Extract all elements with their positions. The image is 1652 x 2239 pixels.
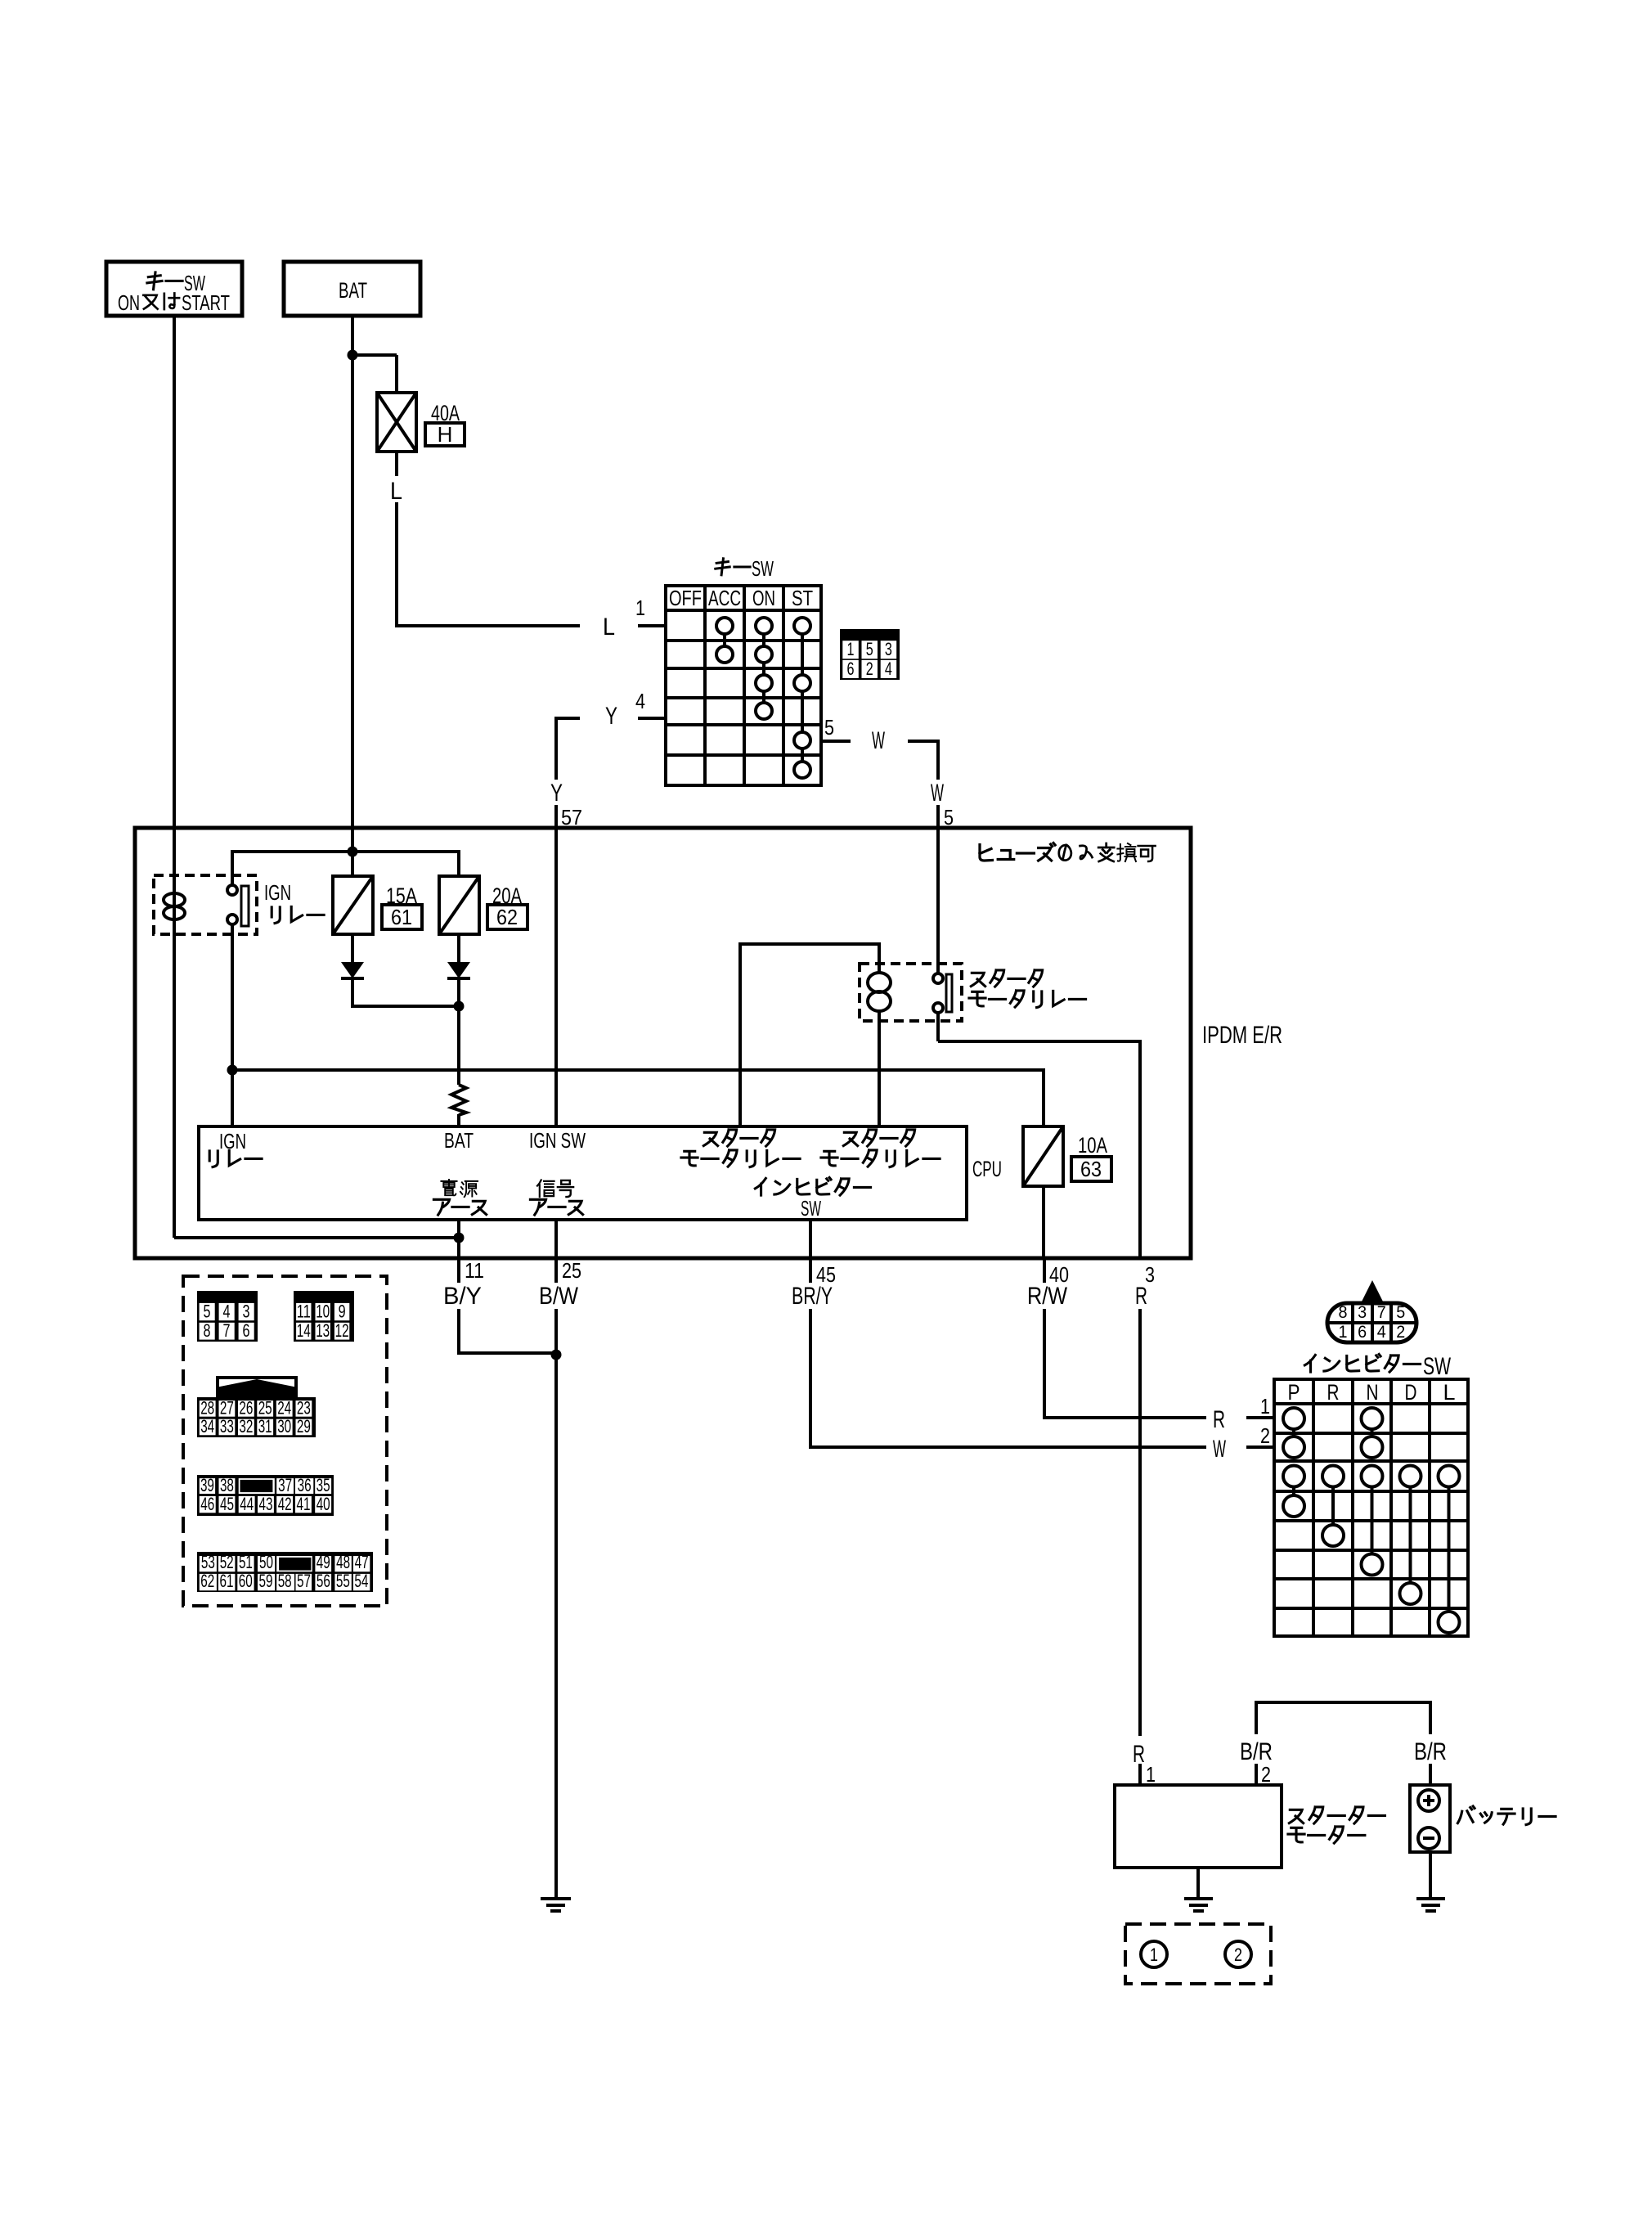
box: key switch power source (キーSW ON又はSTART) <box>106 262 242 316</box>
svg-text:35: 35 <box>316 1475 330 1495</box>
terminal label アース (1) <box>433 1199 449 1215</box>
inhibitor switch table grid <box>1312 1379 1315 1636</box>
svg-text:36: 36 <box>298 1475 312 1495</box>
box label H <box>425 423 465 446</box>
box label 62 <box>487 905 527 929</box>
wire: L horizontal to key switch <box>395 624 398 627</box>
relay starter motor: dashed outline <box>860 964 962 1021</box>
svg-text:W: W <box>872 727 885 754</box>
svg-text:61: 61 <box>391 905 412 929</box>
note ヒューズのみ交換可 <box>980 845 993 861</box>
svg-text:28: 28 <box>200 1398 214 1418</box>
wire: bus down to IGN relay contact <box>231 850 234 885</box>
svg-text:56: 56 <box>316 1571 330 1591</box>
svg-text:3: 3 <box>243 1302 250 1322</box>
key switch contact circles <box>716 618 733 634</box>
fuse 63 10A (box with /) <box>1023 1126 1063 1186</box>
svg-text:1: 1 <box>1339 1323 1348 1342</box>
svg-text:51: 51 <box>239 1552 253 1572</box>
wire: Y horizontal corner <box>556 717 580 720</box>
terminal label アース (2) <box>530 1199 545 1215</box>
wire: relay coil to CPU (starter relay terminal 2) <box>878 1010 881 1126</box>
svg-text:IPDM E/R: IPDM E/R <box>1202 1022 1282 1049</box>
wire: R/W vertical lower <box>1043 1309 1046 1419</box>
wire: 15A fuse to diode D1 <box>351 934 354 964</box>
contact link line N column (1-2) <box>1371 1418 1374 1447</box>
svg-text:4: 4 <box>1377 1323 1386 1342</box>
svg-text:L: L <box>390 478 402 505</box>
svg-text:55: 55 <box>336 1571 350 1591</box>
junction: BAT branch node <box>348 350 358 361</box>
wire: starter relay pin 40 upper <box>1043 1258 1046 1283</box>
wire: power ground pin 11 upper <box>457 1220 460 1283</box>
wire: Y vertical upper <box>554 717 558 780</box>
svg-text:3: 3 <box>1358 1303 1367 1322</box>
svg-text:1: 1 <box>1260 1394 1270 1418</box>
wire: B/R into battery <box>1429 1764 1432 1785</box>
wire: diode D1 to node <box>351 978 354 1008</box>
inhibitor switch contact circles <box>1283 1408 1304 1429</box>
wire: B/Y lower <box>457 1309 460 1355</box>
terminal label スタータ (2) <box>843 1132 857 1145</box>
svg-text:62: 62 <box>200 1571 214 1591</box>
svg-text:5: 5 <box>866 639 873 659</box>
wire: inhibitor SW pin 45 upper <box>809 1220 812 1283</box>
label スターター モーター <box>1289 1810 1303 1823</box>
svg-text:7: 7 <box>1377 1303 1386 1322</box>
svg-text:B/W: B/W <box>539 1283 579 1310</box>
svg-text:N: N <box>1367 1380 1379 1405</box>
wire: IGN relay output bus to 10A fuse <box>232 1068 1044 1072</box>
wire: battery to ground <box>1429 1852 1432 1899</box>
wire: relay contact output to pin 3 <box>938 1040 1140 1043</box>
svg-text:43: 43 <box>259 1494 273 1514</box>
relay IGN: coil loops <box>164 893 185 906</box>
relay IGN: dashed outline <box>154 875 257 934</box>
svg-text:44: 44 <box>240 1494 254 1514</box>
pin 5 tick of key switch <box>821 740 851 743</box>
terminal label モータリレー (2) <box>821 1151 837 1166</box>
svg-text:R/W: R/W <box>1027 1283 1068 1310</box>
svg-text:6: 6 <box>243 1320 250 1341</box>
wire: IGN relay contact to CPU box <box>231 924 234 1126</box>
svg-text:7: 7 <box>223 1320 231 1341</box>
svg-text:SW: SW <box>801 1196 821 1221</box>
svg-text:4: 4 <box>223 1302 231 1322</box>
wire: B/R down to battery <box>1429 1702 1432 1734</box>
wire: resistor to CPU box <box>457 1114 460 1126</box>
svg-text:Y: Y <box>550 780 563 807</box>
svg-text:34: 34 <box>200 1416 214 1436</box>
wire: branch to fusible link H <box>352 353 397 357</box>
svg-text:39: 39 <box>200 1475 214 1495</box>
svg-text:42: 42 <box>278 1494 292 1514</box>
connector view E frame <box>197 1552 373 1592</box>
svg-text:14: 14 <box>297 1320 311 1341</box>
box: BAT power source <box>284 262 420 316</box>
junction: B/Y-B/W tie <box>551 1350 562 1360</box>
connector views: dashed box <box>183 1276 387 1606</box>
svg-text:2: 2 <box>1261 1762 1271 1787</box>
pin 1 tick of key switch <box>638 624 666 627</box>
module box: IPDM E/R <box>135 828 1191 1258</box>
svg-text:8: 8 <box>1339 1303 1348 1322</box>
wire: fuse H down (lower) <box>395 502 398 626</box>
diode D2 <box>447 962 470 978</box>
svg-text:IGN: IGN <box>264 880 291 905</box>
contact link line D column (3-7) <box>1409 1477 1412 1594</box>
svg-text:R: R <box>1135 1283 1147 1310</box>
svg-text:L: L <box>1443 1380 1456 1405</box>
svg-text:41: 41 <box>297 1494 311 1514</box>
label スタータ モータリレー (beside relay) <box>971 973 985 986</box>
svg-text:W: W <box>931 780 944 807</box>
wire: BR/Y vertical lower <box>809 1309 812 1449</box>
component: inhibitor switch table <box>1274 1379 1468 1636</box>
svg-text:24: 24 <box>277 1398 291 1418</box>
svg-text:9: 9 <box>339 1302 346 1322</box>
wire: bus to relay coil <box>878 942 881 973</box>
wire: B/W lower to ground <box>554 1309 558 1899</box>
relay starter motor: contact circles <box>933 973 943 983</box>
svg-text:54: 54 <box>354 1571 368 1591</box>
svg-text:2: 2 <box>1234 1945 1242 1965</box>
svg-text:2: 2 <box>866 659 873 679</box>
svg-text:47: 47 <box>355 1552 369 1572</box>
wire: key switch SW down to ground junction <box>173 316 176 1238</box>
svg-text:OFF: OFF <box>669 586 702 610</box>
svg-text:50: 50 <box>259 1552 273 1572</box>
svg-text:6: 6 <box>847 659 855 679</box>
junction: ground tie node <box>454 1233 465 1243</box>
connector view D frame <box>197 1475 334 1516</box>
wire: internal feed bus <box>232 850 459 853</box>
svg-text:B/Y: B/Y <box>443 1283 482 1310</box>
contact link line P column (3-4) <box>1292 1477 1295 1507</box>
battery minus terminal <box>1418 1828 1439 1849</box>
wire: bus down to CPU (starter relay terminal 1) <box>738 942 742 1126</box>
component box: starter motor <box>1115 1785 1282 1868</box>
svg-text:ST: ST <box>792 586 813 610</box>
svg-text:4: 4 <box>885 659 892 679</box>
wire: BR/Y horizontal to inhibitor SW <box>810 1445 1206 1449</box>
svg-text:L: L <box>603 614 615 641</box>
svg-text:8: 8 <box>204 1320 211 1341</box>
connector view (key switch) frame <box>840 629 900 680</box>
relay starter motor: contact bar <box>946 974 952 1012</box>
svg-text:26: 26 <box>239 1398 253 1418</box>
svg-text:37: 37 <box>278 1475 292 1495</box>
relay starter motor: coil loops <box>868 973 891 992</box>
ground symbol (signal/power ground) <box>541 1897 571 1900</box>
wire: diode D2 to node <box>457 978 460 1006</box>
svg-text:29: 29 <box>297 1416 311 1436</box>
contact link line ACC column <box>723 626 726 654</box>
wire: Y vertical lower into IPDM <box>554 805 558 1126</box>
svg-text:D: D <box>1405 1380 1417 1405</box>
wire: diode output bus <box>352 1005 459 1008</box>
svg-text:11: 11 <box>465 1258 484 1283</box>
title インヒビターSW <box>1304 1355 1315 1372</box>
contact link line L column (3-8) <box>1448 1477 1451 1623</box>
wire: R wire into starter motor <box>1138 1764 1142 1785</box>
svg-text:3: 3 <box>885 639 892 659</box>
svg-text:W: W <box>1213 1436 1226 1463</box>
key switch table grid <box>703 586 707 785</box>
svg-text:4: 4 <box>635 689 645 713</box>
svg-text:IGN SW: IGN SW <box>529 1128 586 1153</box>
svg-text:BR/Y: BR/Y <box>792 1283 833 1310</box>
contact link line ST column <box>801 626 804 770</box>
svg-text:P: P <box>1288 1380 1300 1405</box>
connector view C frame <box>197 1397 316 1437</box>
circled pin 2 <box>1225 1941 1251 1967</box>
wire: B/R horizontal <box>1255 1701 1432 1704</box>
svg-text:38: 38 <box>220 1475 234 1495</box>
wire: BAT down to 15A fuse <box>351 316 354 876</box>
svg-text:45: 45 <box>220 1494 234 1514</box>
wire: W vertical into IPDM to relay contact <box>936 805 940 974</box>
wire: W horizontal <box>908 740 938 743</box>
title キーSW (above table) <box>716 559 729 575</box>
svg-text:13: 13 <box>316 1320 330 1341</box>
svg-text:5: 5 <box>1396 1303 1405 1322</box>
svg-text:SW: SW <box>1423 1353 1451 1380</box>
component box: battery <box>1410 1785 1450 1852</box>
svg-text:ACC: ACC <box>708 586 741 610</box>
connector view A frame <box>197 1291 258 1342</box>
svg-text:ON: ON <box>752 586 775 610</box>
svg-text:57: 57 <box>297 1571 311 1591</box>
svg-text:61: 61 <box>220 1571 234 1591</box>
svg-text:H: H <box>438 422 453 447</box>
svg-text:12: 12 <box>335 1320 349 1341</box>
svg-text:40: 40 <box>316 1494 330 1514</box>
wire: bus down to 10A fuse <box>1042 1068 1045 1126</box>
module box: CPU unit <box>199 1126 967 1220</box>
svg-text:6: 6 <box>1358 1323 1367 1342</box>
connector view (inhibitor): orientation triangle <box>1361 1280 1384 1303</box>
contact link line ON column <box>762 626 765 711</box>
svg-text:1: 1 <box>1146 1762 1156 1787</box>
connector view (inhibitor) frame <box>1327 1303 1416 1342</box>
svg-text:10: 10 <box>316 1302 330 1322</box>
svg-text:5: 5 <box>204 1302 211 1322</box>
wire: signal ground pin 25 upper <box>554 1220 558 1283</box>
wire: node down to resistor <box>457 1005 460 1085</box>
svg-text:R: R <box>1213 1406 1225 1433</box>
svg-text:60: 60 <box>239 1571 253 1591</box>
wire: R wire down to starter motor <box>1138 1309 1142 1736</box>
svg-text:32: 32 <box>239 1416 253 1436</box>
connector view C hood <box>218 1378 296 1397</box>
svg-text:11: 11 <box>297 1302 311 1322</box>
box label 61 <box>382 905 422 929</box>
wire: starter motor case to ground <box>1196 1868 1200 1899</box>
svg-text:IGN: IGN <box>219 1129 246 1153</box>
wire: R/W horizontal to inhibitor SW <box>1044 1416 1206 1419</box>
wire: B/R from starter motor pin 2 up <box>1255 1764 1258 1785</box>
contact link line P column (1-2) <box>1292 1418 1295 1447</box>
diode D1 <box>341 962 364 978</box>
label キーSW (in source box) <box>147 272 162 290</box>
svg-text:25: 25 <box>562 1258 581 1283</box>
component: key switch table (キーSW) <box>666 586 821 785</box>
svg-text:30: 30 <box>277 1416 291 1436</box>
wire: fuse H down (upper) <box>395 452 398 476</box>
svg-text:46: 46 <box>200 1494 214 1514</box>
wire: relay contact output down <box>936 1012 940 1041</box>
battery plus terminal <box>1418 1790 1439 1811</box>
svg-text:1: 1 <box>635 596 645 620</box>
fuse 62 20A (box with /) <box>439 876 479 934</box>
junction: BAT at feed bus <box>348 847 358 857</box>
terminal label 電源 <box>441 1180 456 1195</box>
wire: W tick into inhibitor pin 2 <box>1246 1445 1274 1449</box>
svg-text:START: START <box>182 290 230 315</box>
svg-text:BAT: BAT <box>339 278 367 303</box>
label バッテリー <box>1457 1806 1475 1823</box>
connector detail: dashed box <box>1125 1924 1271 1984</box>
svg-text:52: 52 <box>220 1552 234 1572</box>
wire: 20A fuse to diode D2 <box>457 934 460 964</box>
svg-text:B/R: B/R <box>1240 1738 1273 1765</box>
svg-text:CPU: CPU <box>972 1157 1002 1181</box>
junction: diode output node <box>454 1001 465 1012</box>
terminal label インヒビター <box>755 1178 765 1195</box>
wire: B/R upper left <box>1255 1702 1258 1734</box>
fusible link H 40A (box with X) <box>377 393 416 452</box>
svg-text:SW: SW <box>752 556 774 581</box>
wire: bus down to 20A fuse <box>457 850 460 876</box>
svg-text:10A: 10A <box>1078 1133 1107 1158</box>
svg-text:31: 31 <box>258 1416 272 1436</box>
svg-text:ON: ON <box>118 290 140 315</box>
box label 63 <box>1071 1157 1111 1181</box>
svg-text:23: 23 <box>297 1398 311 1418</box>
svg-text:2: 2 <box>1396 1323 1405 1342</box>
svg-text:33: 33 <box>220 1416 234 1436</box>
svg-text:5: 5 <box>824 715 834 740</box>
svg-text:2: 2 <box>1260 1423 1270 1448</box>
terminal label 信号 <box>537 1180 554 1197</box>
svg-text:Y: Y <box>605 703 617 730</box>
relay IGN: contact bar <box>241 886 249 926</box>
svg-text:48: 48 <box>336 1552 350 1572</box>
svg-text:59: 59 <box>259 1571 273 1591</box>
svg-text:1: 1 <box>1150 1945 1158 1965</box>
svg-text:1: 1 <box>847 639 855 659</box>
terminal label モータリレー (1) <box>681 1151 698 1166</box>
svg-text:25: 25 <box>258 1398 272 1418</box>
relay IGN: contact circles <box>227 885 237 895</box>
wire: W vertical upper <box>935 740 938 743</box>
svg-text:B/R: B/R <box>1414 1738 1447 1765</box>
wire: 10A fuse to pin 40 <box>1042 1186 1045 1258</box>
svg-text:63: 63 <box>1080 1157 1102 1181</box>
contact link line N column (3-6) <box>1371 1477 1374 1565</box>
pin 4 tick of key switch <box>638 717 666 720</box>
wire: R tick into inhibitor pin 1 <box>1246 1416 1274 1419</box>
svg-text:58: 58 <box>278 1571 292 1591</box>
circled pin 1 <box>1141 1941 1167 1967</box>
connector view B frame <box>294 1291 354 1342</box>
wire: key switch SW tie <box>174 1236 459 1239</box>
svg-text:27: 27 <box>220 1398 234 1418</box>
contact link line R column (3-5) <box>1331 1477 1335 1536</box>
svg-text:R: R <box>1327 1380 1340 1405</box>
ground symbol (starter motor) <box>1184 1897 1213 1900</box>
fuse 61 15A (box with /) <box>333 876 373 934</box>
svg-text:62: 62 <box>496 905 518 929</box>
svg-text:49: 49 <box>316 1552 330 1572</box>
svg-text:BAT: BAT <box>444 1128 474 1153</box>
junction: IGN relay output node <box>227 1065 238 1076</box>
ground symbol (battery) <box>1416 1897 1445 1900</box>
wire: starter relay coil top bus <box>740 942 879 946</box>
resistor (BAT sense) <box>451 1085 466 1115</box>
terminal label スタータ (1) <box>703 1132 717 1145</box>
svg-text:53: 53 <box>201 1552 215 1572</box>
